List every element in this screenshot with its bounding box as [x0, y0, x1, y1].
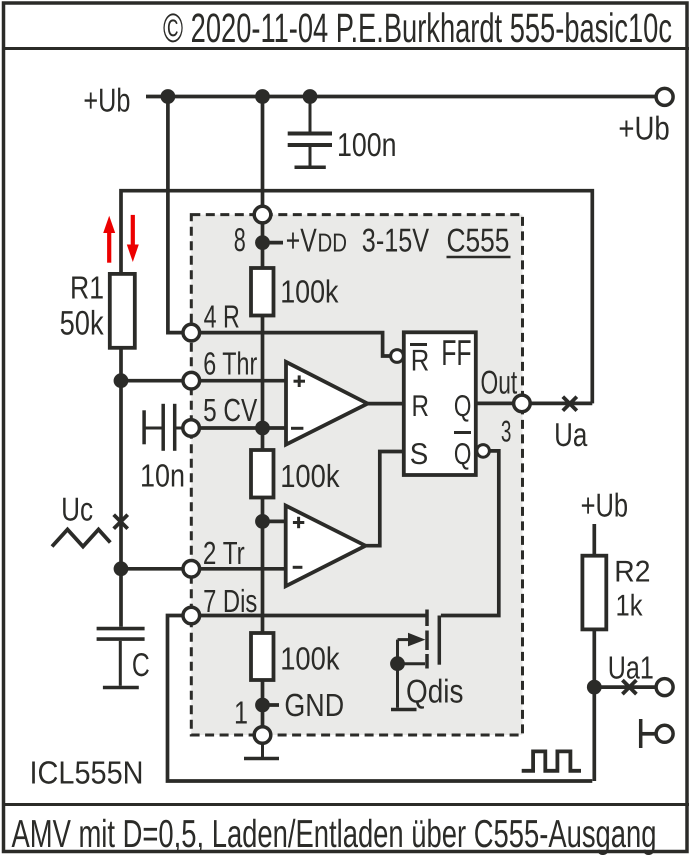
svg-text:AMV mit D=0,5, Laden/Entladen: AMV mit D=0,5, Laden/Entladen über C555-…: [12, 813, 657, 855]
sawtooth waveform symbol: [52, 530, 110, 547]
svg-text:© 2020-11-04 P.E.Burkhardt 555: © 2020-11-04 P.E.Burkhardt 555-basic10c: [163, 5, 672, 51]
svg-text:R: R: [411, 345, 430, 378]
IC C555 dashed box: [191, 215, 522, 735]
wire +Ub rail: [146, 95, 655, 99]
wire comparator 2 output to FF S: [366, 452, 404, 546]
svg-text:3-15V: 3-15V: [362, 222, 429, 259]
svg-text:1k: 1k: [616, 589, 644, 622]
wire lower terminal: [641, 732, 655, 736]
red discharge arrow down: [127, 215, 139, 262]
svg-text:3: 3: [501, 415, 512, 448]
wire pin 8 dash to VDD label: [263, 241, 284, 245]
svg-text:GND: GND: [284, 687, 344, 723]
x marker Uc: [114, 515, 128, 529]
svg-text:Q: Q: [454, 390, 472, 423]
wire R2 bottom to rail: [592, 629, 596, 781]
svg-text:8: 8: [234, 221, 246, 258]
capacitor 10n: [144, 404, 183, 451]
svg-text:4 R: 4 R: [204, 298, 240, 334]
terminal circles: [656, 88, 673, 742]
wire R2 top: [592, 524, 596, 556]
svg-text:R: R: [412, 390, 430, 423]
svg-text:1: 1: [234, 695, 248, 731]
square wave symbol: [522, 751, 581, 770]
FF Qbar bubble: [477, 445, 490, 458]
svg-text:100n: 100n: [337, 126, 397, 163]
svg-text:2 Tr: 2 Tr: [203, 535, 245, 571]
wire pin 3 to output node: [530, 402, 592, 406]
wire Tr branch: [121, 567, 183, 571]
wire pin 7 to bottom rail: [168, 616, 593, 782]
wire divider CV node to R b and lower node: [261, 498, 265, 634]
wire pin 1 dash to GND label: [263, 703, 280, 707]
svg-text:7 Dis: 7 Dis: [203, 583, 257, 619]
transistor Qdis: [391, 610, 439, 710]
resistor divider Rb 100k: [251, 450, 274, 498]
wire comparator 1 output to FF: [368, 402, 404, 406]
svg-text:10n: 10n: [140, 457, 185, 493]
pin circles: [183, 206, 530, 743]
wire rail to pin 4: [168, 97, 183, 333]
ground below GND pin: [244, 743, 279, 758]
flip-flop U FF box: [404, 332, 476, 475]
svg-text:6 Thr: 6 Thr: [203, 346, 257, 382]
FF reset bubble: [391, 350, 404, 363]
svg-text:FF: FF: [441, 332, 471, 373]
svg-text:+Ub: +Ub: [618, 110, 669, 147]
wire Uc node down to C: [119, 381, 123, 627]
red charge arrow up: [103, 216, 115, 263]
wire pin 2 to comparator: [200, 567, 286, 571]
node dots: [114, 89, 602, 712]
wire pin 7 discharge lead: [200, 614, 427, 618]
svg-text:+Ub: +Ub: [581, 486, 629, 523]
resistor R1: [110, 274, 135, 348]
svg-text:Qdis: Qdis: [406, 672, 463, 709]
svg-text:100k: 100k: [280, 641, 340, 677]
op-amp comparator 2: [286, 506, 366, 587]
resistor divider Ra 100k: [251, 268, 274, 316]
svg-text:Uc: Uc: [61, 491, 93, 528]
svg-text:100k: 100k: [280, 458, 340, 494]
svg-text:Out: Out: [481, 364, 518, 401]
svg-text:Ua1: Ua1: [608, 649, 654, 685]
svg-text:+V: +V: [286, 222, 317, 259]
wire Ua1 branch: [594, 685, 654, 689]
x marker Ua1: [622, 680, 636, 694]
capacitor C: [97, 629, 145, 688]
svg-text:+Ub: +Ub: [83, 82, 130, 119]
svg-text:R2: R2: [614, 556, 650, 589]
svg-text:DD: DD: [318, 228, 348, 258]
svg-text:50k: 50k: [60, 305, 105, 343]
svg-text:R1: R1: [70, 269, 104, 305]
wire output feedback top link: [121, 191, 592, 404]
svg-text:ICL555N: ICL555N: [30, 755, 144, 791]
wire pin 8 stub: [261, 223, 265, 236]
svg-text:C555: C555: [447, 222, 510, 259]
wire FF Qbar to gate: [441, 451, 499, 616]
x marker Ua: [563, 397, 577, 411]
svg-text:5 CV: 5 CV: [203, 392, 258, 428]
wire divider R c to GND pin: [261, 680, 265, 727]
wire pin 6 to comparator: [200, 379, 286, 383]
capacitor 100n: [288, 97, 332, 168]
resistor R2: [582, 556, 606, 630]
wire R1 bottom to Thr: [121, 348, 183, 381]
op-amp comparator 1: [286, 362, 368, 445]
bottom separator: [2, 803, 689, 806]
svg-text:S: S: [410, 438, 429, 471]
svg-text:Ua: Ua: [554, 416, 588, 453]
svg-text:C: C: [132, 646, 150, 683]
title separator: [2, 47, 689, 50]
wire pin 4 to FF reset bubble: [200, 333, 391, 356]
transistor body arrow: [408, 633, 425, 647]
wire pin 8 to divider R a: [261, 243, 265, 268]
wire divider R a to CV node: [261, 316, 265, 451]
wire lower comparator plus input: [263, 520, 286, 524]
wire rail to pin 8: [261, 97, 265, 207]
svg-text:Q: Q: [454, 438, 472, 471]
resistor divider Rc 100k: [251, 633, 274, 680]
wire FF Q to pin 3: [476, 402, 514, 406]
svg-text:100k: 100k: [280, 273, 339, 309]
lower terminal bar: [639, 719, 643, 748]
wire pin 5 to comparator: [199, 426, 286, 430]
